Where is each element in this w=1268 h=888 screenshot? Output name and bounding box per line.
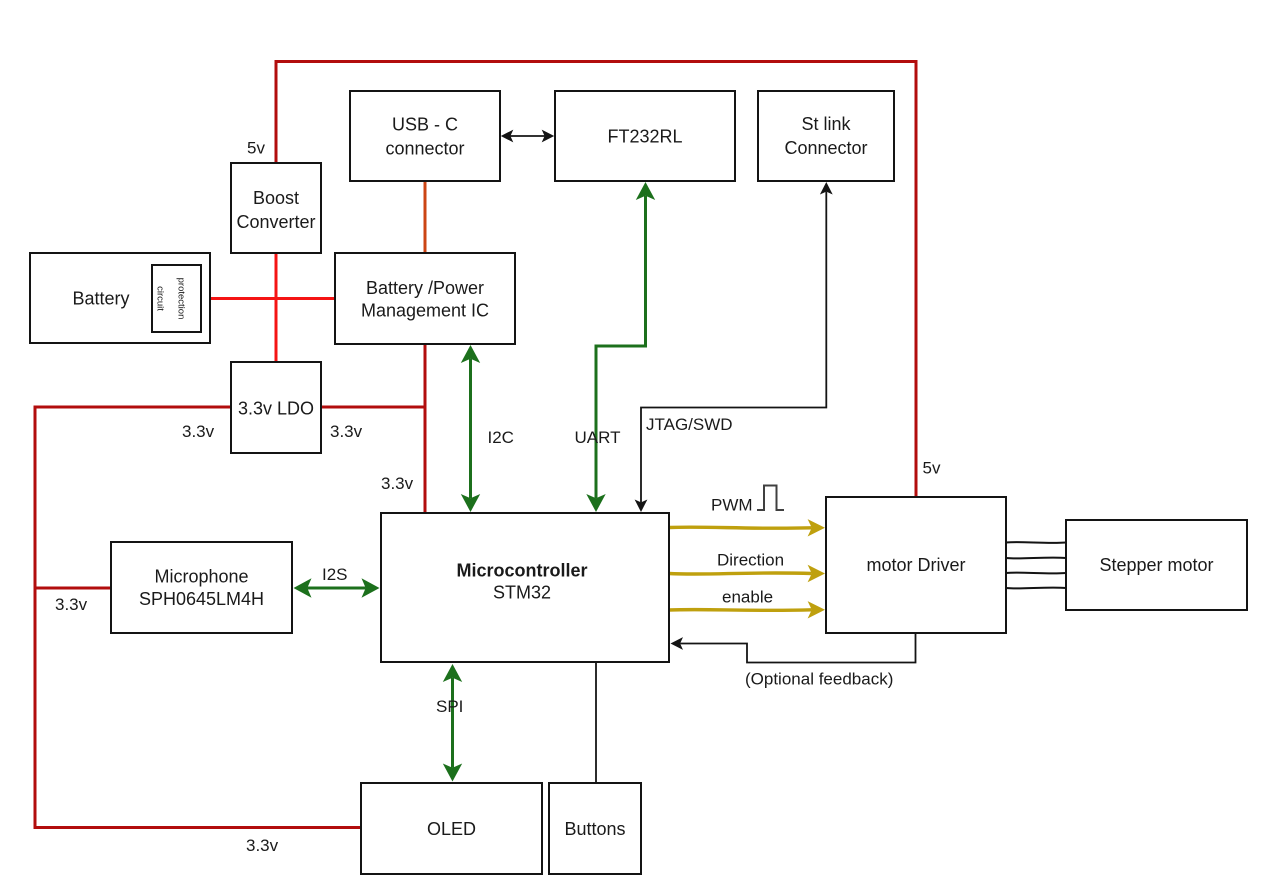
bus label: JTAG/SWD (646, 415, 733, 434)
net label: 3.3v (above Microcontroller) (381, 474, 414, 493)
wire: orange VBUS from USB-C connector to Battery/Power Management IC (424, 182, 427, 252)
svg-text:I2C: I2C (488, 428, 514, 447)
wire: bright red from Battery to Battery/Power Management IC (211, 297, 334, 300)
svg-text:Buttons: Buttons (564, 819, 625, 839)
svg-text:enable: enable (722, 588, 773, 607)
svg-text:Microphone: Microphone (154, 567, 248, 587)
arrowhead: UART top (636, 182, 655, 200)
svg-text:3.3v: 3.3v (330, 422, 363, 441)
net label: 5v (right, at motor Driver input) (923, 459, 941, 478)
wire: green I2S double arrow between Microphone and Microcontroller (307, 587, 365, 590)
arrowhead: JTAG bottom (635, 500, 648, 513)
svg-text:Connector: Connector (784, 138, 867, 158)
svg-text:SPI: SPI (436, 697, 463, 716)
net label: 3.3v (right of LDO) (330, 422, 363, 441)
wire: green SPI double arrow between Microcontroller and OLED (451, 678, 454, 768)
wire: dark red 3.3v vertical from Battery/Power IC bottom to Microcontroller top (424, 345, 427, 512)
net label: 5v (top left, at Boost Converter input) (247, 139, 265, 158)
svg-text:5v: 5v (923, 459, 941, 478)
arrowhead: I2S right (362, 578, 380, 597)
wire: 5v top power rail (dark red) from Boost Converter top to motor Driver top (276, 62, 916, 497)
arrowhead: USB right (542, 130, 555, 143)
block: OLED display (361, 783, 542, 874)
block: Boost Converter (231, 163, 321, 253)
block: Buttons (549, 783, 641, 874)
wire: black line from Microcontroller bottom to Buttons (595, 662, 597, 783)
arrowhead: I2C bottom (461, 494, 480, 512)
svg-text:I2S: I2S (322, 565, 348, 584)
signal label: enable (722, 588, 773, 607)
arrowhead: PWM right (808, 519, 825, 536)
arrowhead: SPI bottom (443, 764, 462, 782)
block: Microcontroller STM32 U1 (381, 513, 669, 662)
arrowhead: JTAG top (820, 182, 833, 195)
wire: black double arrow between USB-C connector and FT232RL (510, 135, 544, 137)
net label: 3.3v (bottom rail to OLED) (246, 836, 279, 855)
arrowhead: I2C top (461, 345, 480, 363)
signal label: PWM (711, 496, 753, 515)
wire: yellow enable arrow from Microcontroller to motor Driver (669, 608, 812, 612)
arrowhead: Direction right (808, 565, 825, 582)
net label: 3.3v (left of LDO) (182, 422, 215, 441)
arrowhead: USB left (501, 130, 514, 143)
svg-text:Direction: Direction (717, 551, 784, 570)
wire: dark red 3.3v from LDO right to vertical node (322, 406, 425, 409)
block: USB-C connector U? (350, 91, 500, 181)
arrowhead: feedback left (671, 637, 684, 650)
svg-text:Battery /Power: Battery /Power (366, 278, 484, 298)
net label: 3.3v (at Microphone feed) (55, 595, 88, 614)
svg-text:3.3v: 3.3v (246, 836, 279, 855)
block: Battery (30, 253, 210, 343)
svg-text:Battery: Battery (72, 289, 129, 309)
svg-text:5v: 5v (247, 139, 265, 158)
wire: JTAG/SWD from St link Connector down to Microcontroller (black) (641, 192, 826, 503)
svg-text:JTAG/SWD: JTAG/SWD (646, 415, 733, 434)
svg-text:OLED: OLED (427, 819, 476, 839)
arrowhead: I2S left (294, 578, 312, 597)
svg-text:USB - C: USB - C (392, 115, 458, 135)
wire: yellow PWM arrow from Microcontroller to motor Driver (669, 527, 812, 528)
svg-text:Stepper motor: Stepper motor (1099, 555, 1213, 575)
bus label: I2S (322, 565, 348, 584)
svg-text:FT232RL: FT232RL (607, 127, 682, 147)
block: Stepper motor M1 (1066, 520, 1247, 610)
block: 3.3v LDO regulator (231, 362, 321, 453)
wire: dark red 3.3v rail left of LDO, down left side and along bottom to OLED (35, 407, 361, 828)
svg-text:PWM: PWM (711, 496, 753, 515)
arrowhead: UART bottom (586, 494, 605, 512)
svg-text:Management IC: Management IC (361, 301, 489, 321)
block: FT232RL USB-UART bridge (555, 91, 735, 181)
svg-text:STM32: STM32 (493, 583, 551, 603)
svg-text:(Optional feedback): (Optional feedback) (745, 670, 893, 689)
svg-text:Microcontroller: Microcontroller (456, 561, 587, 581)
block: St link Connector (758, 91, 894, 181)
svg-text:St link: St link (801, 114, 851, 134)
svg-text:Boost: Boost (253, 188, 299, 208)
wire: dark red 3.3v branch to Microphone (35, 587, 110, 590)
bus label: SPI (436, 697, 463, 716)
arrowhead: SPI top (443, 664, 462, 682)
svg-text:motor Driver: motor Driver (866, 555, 965, 575)
wire: yellow Direction arrow from Microcontroller to motor Driver (669, 573, 812, 574)
svg-text:circuit: circuit (155, 286, 166, 311)
svg-text:protection: protection (176, 278, 187, 320)
wire: green UART from FT232RL down to Microcontroller (596, 196, 646, 498)
bus label: UART (575, 428, 621, 447)
arrowhead: enable right (808, 601, 825, 618)
svg-text:3.3v: 3.3v (182, 422, 215, 441)
block: Microphone SPH0645LM4H (111, 542, 292, 633)
block: motor Driver (826, 497, 1006, 633)
svg-text:3.3v: 3.3v (55, 595, 88, 614)
block: Battery / Power Management IC (335, 253, 515, 344)
svg-text:SPH0645LM4H: SPH0645LM4H (139, 589, 264, 609)
wire: green I2C double arrow between Battery/Power IC and Microcontroller (469, 359, 472, 498)
wire: 4 motor phase lines between motor Driver and Stepper motor (1006, 542, 1066, 588)
block: battery protection circuit (rotated label) (152, 265, 201, 332)
signal label: (Optional feedback) (745, 670, 893, 689)
svg-text:3.3v: 3.3v (381, 474, 414, 493)
wire: bright red from Boost Converter bottom to 3.3v LDO top (275, 254, 278, 361)
svg-text:UART: UART (575, 428, 621, 447)
signal label: Direction (717, 551, 784, 570)
signal label: PWM pulse waveform symbol (757, 486, 784, 511)
wire: optional feedback from motor Driver bottom to Microcontroller right (black) (680, 633, 915, 663)
svg-text:connector: connector (385, 139, 464, 159)
bus label: I2C (488, 428, 514, 447)
svg-text:3.3v LDO: 3.3v LDO (238, 399, 314, 419)
svg-text:Converter: Converter (236, 212, 315, 232)
